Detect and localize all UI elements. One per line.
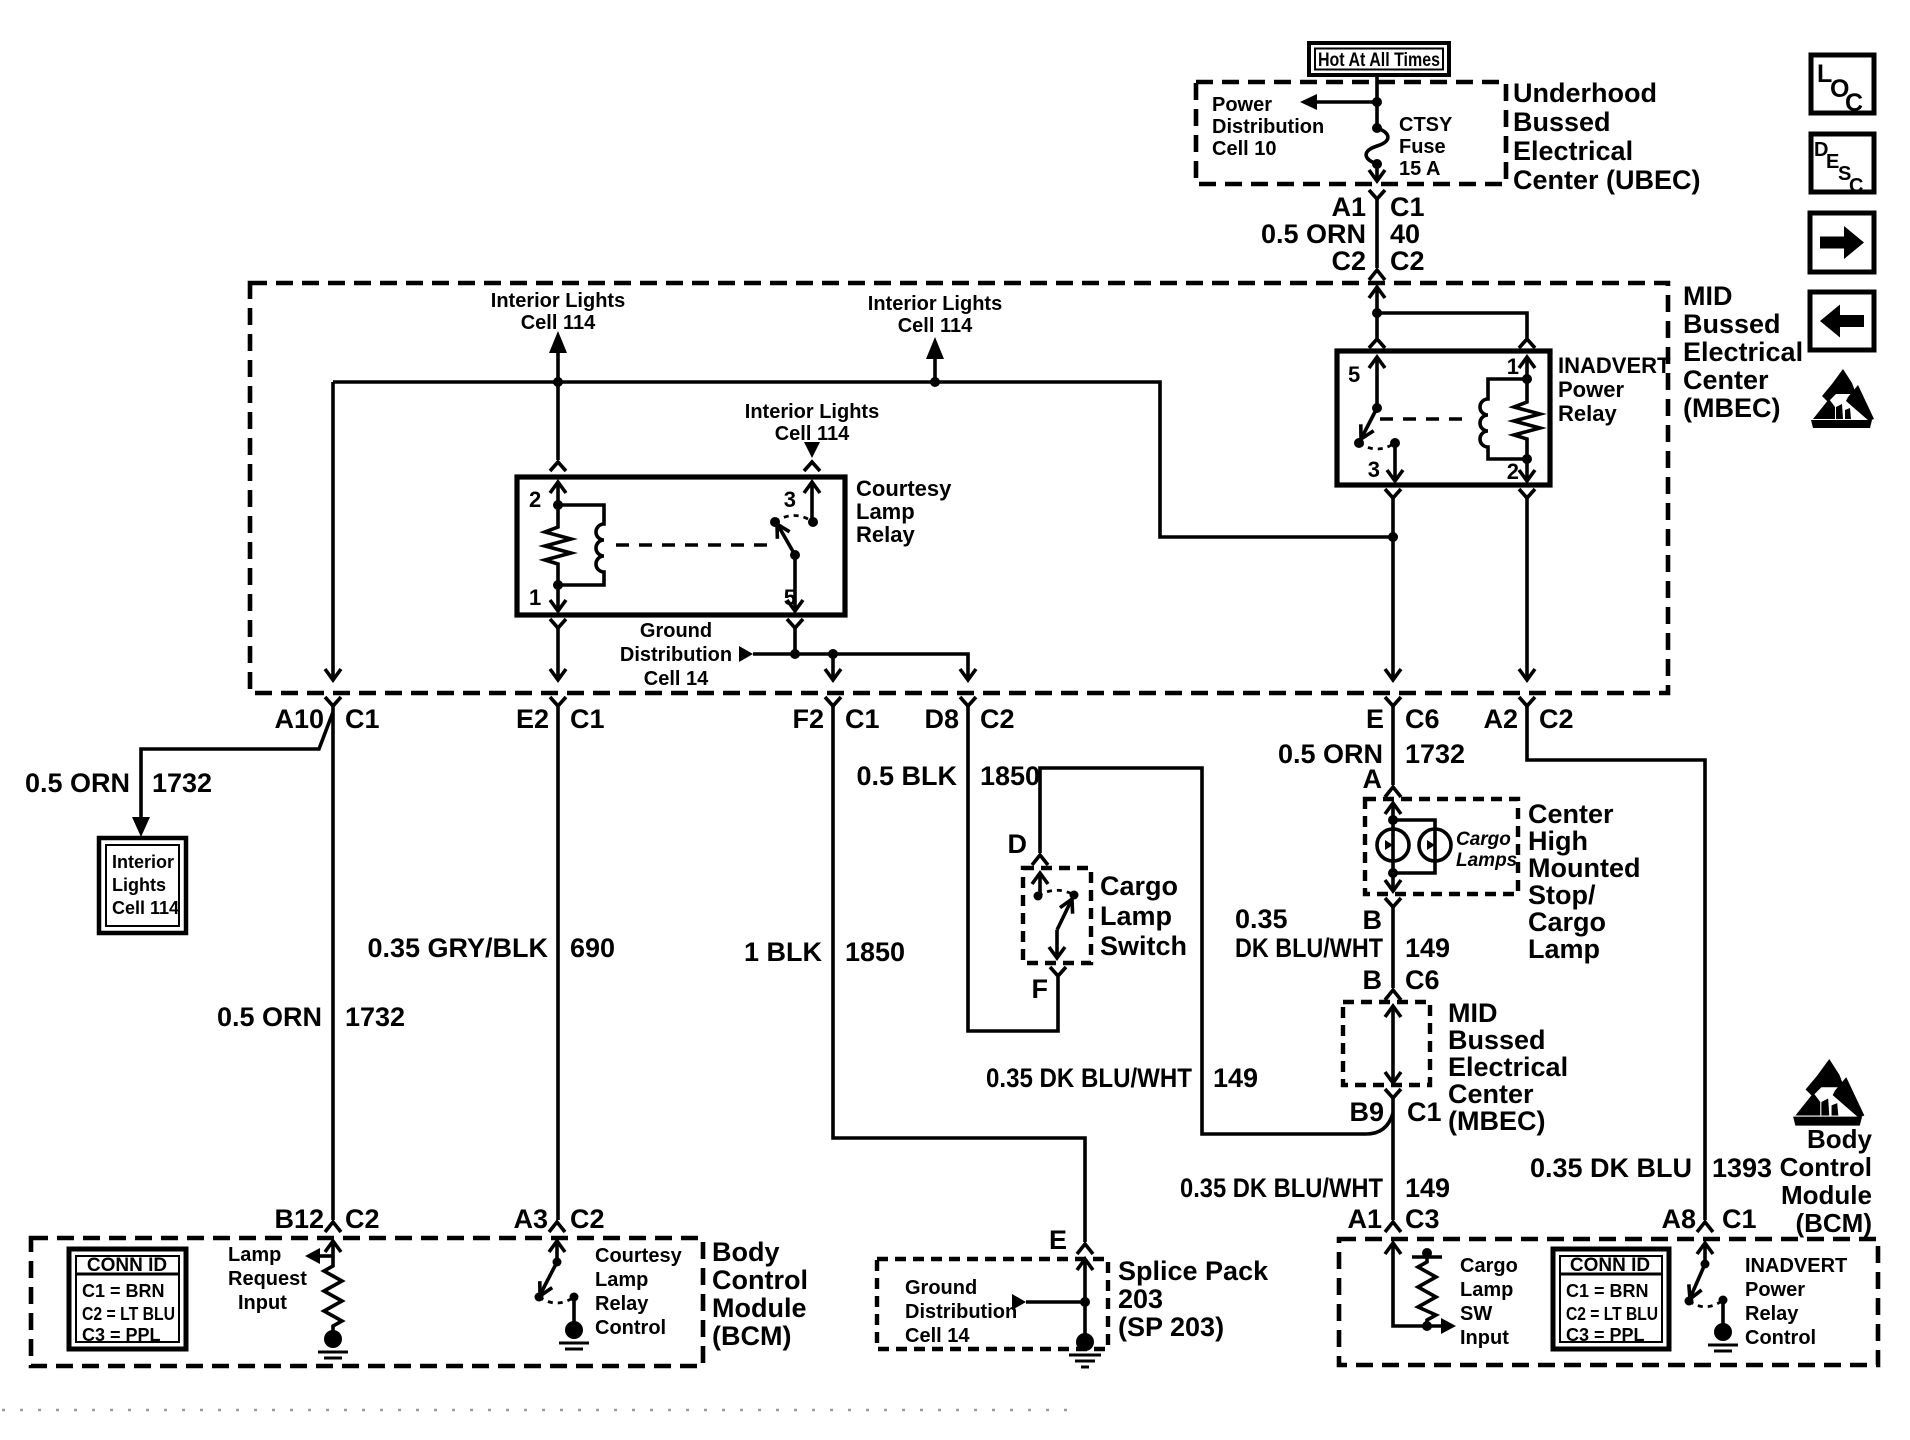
arrowhead: into interior lights cell box [132,817,150,837]
svg-text:C2: C2 [1331,246,1366,276]
node: lamp bottom junction [1388,868,1398,878]
svg-text:Lamp: Lamp [228,1244,281,1266]
svg-text:0.35 DK BLU: 0.35 DK BLU [1530,1153,1692,1183]
svg-text:0.5 ORN: 0.5 ORN [25,768,130,798]
arrowhead: pin 1 pointing down [550,600,566,611]
svg-text:MID: MID [1683,281,1733,311]
svg-text:Electrical: Electrical [1448,1052,1568,1082]
svg-text:0.35 GRY/BLK: 0.35 GRY/BLK [367,933,548,963]
wire: pin 5 down to ground distribution bus [793,628,797,654]
svg-text:A1: A1 [1347,1204,1382,1234]
wire: pin 1 down to MBEC edge E2 [556,628,560,680]
connector: male half above splice pack at E [1077,1244,1093,1254]
svg-text:C3: C3 [1405,1204,1440,1234]
svg-text:B: B [1363,965,1383,995]
connector: female half below cargo switch F [1050,967,1066,976]
svg-text:Courtesy: Courtesy [856,476,952,501]
ground: INADVERT driver ground [1708,1323,1738,1351]
svg-text:Relay: Relay [595,1293,649,1315]
svg-text:Control: Control [712,1265,808,1295]
box: Interior Lights Cell 114 [99,838,186,933]
box: MID Bussed Electrical Center (MBEC) main, dashed [250,283,1668,693]
node: coil bottom [553,580,563,590]
wire: E2 to A3 run [556,706,560,1220]
svg-text:Cell 114: Cell 114 [112,898,179,918]
svg-text:C2: C2 [345,1204,380,1234]
wire: E to cargo lamp A [1391,706,1395,785]
svg-text:203: 203 [1118,1284,1163,1314]
svg-text:Courtesy: Courtesy [595,1245,683,1267]
wire: pin 1 stem [556,585,560,611]
arrowhead: B12 entry pointing up [325,1241,341,1252]
svg-text:D8: D8 [924,704,959,734]
switch: cargo lamp switch contact [1032,873,1079,930]
connector: female half below small MBEC at B9 [1385,1089,1401,1098]
box: Body Control Module (BCM) right, dashed [1339,1239,1878,1365]
svg-text:MID: MID [1448,998,1498,1028]
wire: pin 3 stem [1393,443,1397,481]
svg-text:Ground: Ground [640,620,712,642]
box: Underhood Bussed Electrical Center (UBEC), dashed [1196,82,1506,184]
node: bus junction at second cell-114 arrow [930,377,940,387]
arrowhead: E2 exit pointing down [550,669,566,680]
svg-text:1 BLK: 1 BLK [744,937,823,967]
resistor: lamp request input pull [324,1262,342,1331]
arrowhead: ground distribution pointer (splice) [1012,1294,1026,1310]
svg-text:Module: Module [712,1293,807,1323]
svg-text:Body: Body [712,1237,780,1267]
connector: male half above cargo switch D [1032,855,1048,865]
node: fuse bottom [1372,159,1382,169]
wire: A8 stem [1703,1243,1707,1264]
wire: A10 branch to interior lights cell [141,712,333,820]
icon: LOC box [1811,55,1874,117]
wire: B9 down to A1 [1391,1098,1395,1220]
box: Splice Pack ground distribution, dashed [877,1259,1108,1349]
connector: male half above BCM at B12 [325,1222,341,1232]
label: Body Control Module (BCM) right [1780,1124,1873,1238]
svg-text:0.35 DK BLU/WHT: 0.35 DK BLU/WHT [1180,1173,1383,1203]
arrowhead: D8 exit pointing down [960,669,976,680]
wire: pin 3 down to MBEC edge E [1391,498,1395,680]
wire: A1/C1 to C2/C2 run [1375,199,1379,268]
svg-text:Cargo: Cargo [1528,907,1606,937]
icon: ESD symbol bottom right [1793,1059,1864,1126]
svg-text:0.35: 0.35 [1235,904,1288,934]
arrowhead: entry into MBEC from UBEC pointing up [1369,287,1385,298]
box: Cargo Lamp Switch, dashed [1023,868,1091,963]
svg-text:Lights: Lights [112,875,166,895]
label: Body Control Module (BCM) left [712,1237,808,1351]
svg-text:Cell 14: Cell 14 [644,668,709,690]
connector: female half below pin 1 [550,619,566,628]
wire: pin 3 stem with up arrow [810,482,814,522]
svg-text:Electrical: Electrical [1513,136,1633,166]
connector: female half below MBEC at A2 [1519,697,1535,706]
svg-text:1732: 1732 [152,768,212,798]
arrowhead: E exit pointing down [1385,669,1401,680]
wire: A10 to B12 run [331,706,335,1220]
node: resistor top [1422,1248,1432,1258]
svg-text:B12: B12 [274,1204,324,1234]
svg-text:Lamp: Lamp [856,499,915,524]
box: Hot At All Times [1309,43,1449,75]
ground: courtesy driver ground [559,1321,589,1349]
svg-text:Bussed: Bussed [1683,309,1781,339]
label: INADVERT Power Relay Control [1745,1255,1847,1349]
arrowhead: pin 3 pointing down [1387,470,1403,481]
connector: female half below MBEC at F2 [825,697,841,706]
svg-text:C1: C1 [1722,1204,1757,1234]
arrowhead: exit UBEC pointing down [1369,170,1385,181]
arrowhead: small MBEC exit pointing down [1385,1072,1401,1083]
svg-text:C2: C2 [1390,246,1425,276]
svg-text:A3: A3 [513,1204,548,1234]
svg-text:Cell 14: Cell 14 [905,1325,970,1347]
svg-text:C2: C2 [1539,704,1574,734]
link: INADVERT actuation dashed line [1380,417,1469,420]
svg-text:Underhood: Underhood [1513,78,1657,108]
svg-text:A: A [1363,764,1383,794]
svg-text:Input: Input [238,1292,287,1314]
svg-text:Hot At All Times: Hot At All Times [1318,50,1440,71]
relay box: INADVERT Power Relay [1337,351,1550,485]
svg-text:Mounted: Mounted [1528,853,1640,883]
resistor: INADVERT coil resistance [1514,379,1540,459]
wire: pin 1 stem to coil [1525,357,1529,379]
connector: female half below MBEC at E2 [550,697,566,706]
node: junction F2 drop on ground bus [828,649,838,659]
link: relay actuation dashed line [616,543,777,546]
node: resistor bottom junction [1422,1321,1432,1331]
svg-text:D: D [1008,829,1028,859]
switch: courtesy lamp relay control driver [535,1258,579,1304]
svg-text:(BCM): (BCM) [712,1321,791,1351]
label: small MBEC title [1448,998,1568,1136]
connector: male half above courtesy relay pin 3 [804,462,820,471]
svg-text:Relay: Relay [1558,401,1617,426]
inductor: courtesy relay coil [558,505,604,585]
arrowhead: pin 5 pointing down [787,600,803,611]
wire: F2 to splice pack [833,706,1085,1242]
wire: driver ground stub [572,1297,576,1322]
svg-text:(SP 203): (SP 203) [1118,1312,1224,1342]
svg-text:Bussed: Bussed [1448,1025,1546,1055]
svg-text:F2: F2 [792,704,824,734]
fuse: CTSY Fuse 15 A [1366,128,1388,164]
connector: female half below MBEC at A10 [325,697,341,706]
wire: hot feed into UBEC [1375,75,1379,128]
arrowhead: F2 exit pointing down [825,669,841,680]
svg-text:Splice Pack: Splice Pack [1118,1256,1269,1286]
svg-text:Distribution: Distribution [620,644,732,666]
connector: female half below cargo lamp B [1385,898,1401,907]
svg-text:C6: C6 [1405,704,1440,734]
wire: pin 2 stem [1525,459,1529,481]
svg-text:A2: A2 [1483,704,1518,734]
svg-text:Power: Power [1212,94,1272,116]
table: CONN ID left [69,1249,186,1349]
svg-text:F: F [1032,974,1049,1004]
svg-text:Distribution: Distribution [1212,116,1324,138]
svg-text:C2 = LT BLU: C2 = LT BLU [82,1304,175,1324]
node: lamp top junction [1388,815,1398,825]
node: junction at power distribution tap [1372,97,1382,107]
svg-text:CONN ID: CONN ID [87,1255,167,1276]
svg-text:Control: Control [595,1317,666,1339]
table: CONN ID right [1553,1249,1669,1349]
node: INADVERT coil top [1522,374,1532,384]
svg-text:Center: Center [1448,1079,1534,1109]
svg-text:2: 2 [529,487,541,512]
label: INADVERT Power Relay [1558,353,1671,426]
wire: drop to F2 [831,654,835,680]
svg-text:Center: Center [1683,365,1769,395]
arrowhead: A1 entry pointing up [1385,1243,1401,1254]
svg-text:3: 3 [784,487,796,512]
arrowhead: ground distribution pointer [739,646,753,662]
resistor: courtesy relay coil resistance [545,505,571,585]
svg-text:Interior: Interior [112,852,174,872]
svg-text:SW: SW [1460,1303,1492,1325]
arrowhead: pin 5 pointing up inside relay [1369,357,1385,368]
svg-text:High: High [1528,826,1588,856]
node: bus junction at pin 2 drop [553,377,563,387]
arrowhead: F pointing down [1049,947,1065,958]
box: Body Control Module (BCM) left, dashed [31,1238,703,1366]
svg-text:Cell 114: Cell 114 [898,315,973,337]
svg-text:C: C [1849,175,1863,197]
node: splice junction [1080,1297,1090,1307]
svg-text:CTSY: CTSY [1399,114,1453,136]
svg-text:C2: C2 [570,1204,605,1234]
svg-text:Interior Lights: Interior Lights [491,290,625,312]
wire: A10 drop from bus [331,382,335,680]
svg-text:1850: 1850 [845,937,905,967]
wire: A2 over to A8 run [1527,706,1705,1220]
svg-text:Cargo: Cargo [1460,1255,1518,1277]
wire: power distribution branch with left arrow [1314,100,1377,104]
svg-text:15 A: 15 A [1399,158,1441,180]
wire: bus drop to courtesy relay pin 2 [556,382,560,460]
svg-text:1393: 1393 [1712,1153,1772,1183]
icon: DESC box [1811,134,1874,197]
label: UBEC title [1513,78,1701,195]
svg-text:Cell 114: Cell 114 [775,423,850,445]
svg-text:690: 690 [570,933,615,963]
label: Power Distribution Cell 10 [1212,94,1324,160]
wire: splice pack vertical to ground [1083,1259,1087,1336]
arrowhead: A10 exit pointing down [325,669,341,680]
connector: male half above INADVERT pin 1 [1519,339,1535,348]
svg-text:Lamps: Lamps [1456,850,1517,871]
wire: B down to small MBEC [1391,907,1395,988]
wire: up arrow to Interior Lights cell 114 (first) [556,352,560,382]
connector: male half above small MBEC [1385,990,1401,1000]
label: Ground Distribution Cell 14 (MBEC) [620,620,732,690]
svg-text:C1: C1 [1390,192,1425,222]
wire: B12 stem [331,1241,335,1262]
svg-text:C1: C1 [345,704,380,734]
svg-text:(BCM): (BCM) [1795,1208,1872,1238]
wire: cargo switch F stem [1055,930,1059,958]
svg-text:DK BLU/WHT: DK BLU/WHT [1235,933,1383,963]
svg-text:C: C [1845,89,1863,117]
icon: left arrow box [1810,292,1874,350]
svg-text:Electrical: Electrical [1683,337,1803,367]
svg-text:1850: 1850 [980,761,1040,791]
svg-text:40: 40 [1390,219,1420,249]
icon: right arrow box [1810,213,1874,272]
svg-text:INADVERT: INADVERT [1558,353,1671,378]
label: Cargo Lamp Switch [1100,871,1187,961]
svg-text:1: 1 [529,585,541,610]
wire: lamp request branch with left arrow [318,1254,333,1258]
connector: female half below MBEC at E [1385,697,1401,706]
arrowhead: A2 exit pointing down [1519,669,1535,680]
label: Lamp Request Input [228,1244,307,1314]
connector: male half above MBEC [1369,270,1385,280]
connector: female half below pin 3 [1385,489,1401,498]
svg-text:A8: A8 [1661,1204,1696,1234]
label: Cargo Lamp SW Input [1460,1255,1518,1349]
wire: pin 2 down to MBEC edge A2 [1525,498,1529,680]
wire: D8 to cargo lamp switch F [968,706,1058,1031]
switch: INADVERT power relay control driver [1685,1260,1728,1307]
node: INADVERT coil bottom [1522,454,1532,464]
svg-text:C3 = PPL: C3 = PPL [1566,1325,1645,1345]
svg-text:A10: A10 [274,704,324,734]
node: junction bus to INADVERT pin 3 wire [1388,532,1398,542]
svg-text:Input: Input [1460,1327,1509,1349]
connector: female half below MBEC at D8 [960,697,976,706]
arrowhead: entry at A pointing up [1385,803,1401,814]
svg-text:C6: C6 [1405,965,1440,995]
label: Courtesy Lamp Relay [856,476,952,547]
svg-text:Center (UBEC): Center (UBEC) [1513,165,1701,195]
inductor: INADVERT coil [1480,379,1527,459]
svg-text:0.35 DK BLU/WHT: 0.35 DK BLU/WHT [986,1063,1192,1093]
connector: male half above courtesy relay pin 2 [550,462,566,471]
box: Center High Mounted Stop/Cargo Lamp, dashed [1365,799,1518,894]
svg-text:Lamp: Lamp [1460,1279,1513,1301]
svg-text:Lamp: Lamp [1100,901,1172,931]
label: MBEC title right [1683,281,1803,423]
svg-text:Distribution: Distribution [905,1301,1017,1323]
svg-text:Cargo: Cargo [1456,829,1511,850]
bottom faint dotted rule [2,1409,1080,1412]
svg-text:CONN ID: CONN ID [1570,1255,1650,1276]
connector: female half below pin 2 [1519,489,1535,498]
lamp: cargo lamp left [1377,829,1409,861]
svg-text:Ground: Ground [905,1277,977,1299]
label: Ground Distribution Cell 14 (splice) [905,1277,1017,1347]
svg-text:C1: C1 [570,704,605,734]
svg-text:C1 = BRN: C1 = BRN [82,1281,165,1301]
svg-text:Switch: Switch [1100,931,1187,961]
wire: up arrow to Interior Lights cell 114 (second) [933,358,937,382]
switch: courtesy relay contact [770,516,818,561]
ground: B12 resistor ground [318,1330,348,1358]
svg-text:5: 5 [1348,362,1360,387]
svg-text:Body: Body [1807,1124,1873,1154]
svg-text:Power: Power [1745,1279,1805,1301]
svg-text:3: 3 [1368,457,1380,482]
arrowhead: splice entry pointing up [1077,1259,1093,1270]
svg-text:C1: C1 [1407,1097,1442,1127]
wire: cargo lamp SW input path [1393,1243,1444,1326]
svg-text:C2: C2 [980,704,1015,734]
svg-text:Center: Center [1528,799,1614,829]
svg-text:C2 = LT BLU: C2 = LT BLU [1566,1304,1658,1324]
connector: male half above BCM at A8 [1697,1222,1713,1232]
svg-text:Module: Module [1781,1180,1872,1210]
svg-text:(MBEC): (MBEC) [1683,393,1780,423]
svg-text:C3 = PPL: C3 = PPL [82,1325,161,1345]
wire: branch to INADVERT pin 1 [1377,313,1527,338]
label: CTSY Fuse 15 A [1399,114,1453,180]
svg-text:0.5 ORN: 0.5 ORN [217,1002,322,1032]
connector: male half above INADVERT pin 5 [1369,339,1385,348]
arrowhead: pin 2 pointing down [1519,470,1535,481]
svg-text:1732: 1732 [345,1002,405,1032]
connector: female half below pin 5 [787,619,803,628]
svg-text:Cargo: Cargo [1100,871,1178,901]
arrowhead: A8 entry pointing up [1697,1243,1713,1254]
svg-text:2: 2 [1507,459,1519,484]
label: Center High Mounted Stop/Cargo Lamp [1528,799,1640,964]
wire: ground distribution link [1026,1300,1085,1304]
node: junction feed split [1372,308,1382,318]
node: fuse top [1372,123,1382,133]
svg-text:149: 149 [1405,933,1450,963]
svg-text:Lamp: Lamp [595,1269,648,1291]
wire: pin 2 stem to coil [556,482,560,505]
connector: male half above BCM at A3 [549,1222,565,1232]
svg-text:Cell 10: Cell 10 [1212,138,1276,160]
svg-text:E: E [1366,704,1384,734]
arrowhead: feed from cell 114 pointing down into pin 3 [804,442,820,458]
relay box: Courtesy Lamp Relay [517,477,845,615]
svg-text:A1: A1 [1331,192,1366,222]
connector: male half above BCM at A1 [1385,1222,1401,1232]
svg-text:Interior Lights: Interior Lights [868,293,1002,315]
wire: ground distribution bus [753,654,968,680]
svg-text:Power: Power [1558,377,1624,402]
svg-text:C1: C1 [845,704,880,734]
box: MID Bussed Electrical Center (MBEC) small, dashed [1343,1002,1430,1085]
svg-text:0.5 BLK: 0.5 BLK [856,761,957,791]
svg-text:149: 149 [1213,1063,1258,1093]
svg-text:B: B [1363,905,1383,935]
wire: feed down to INADVERT relay junction [1375,287,1379,338]
arrowhead: pin 2 pointing up inside relay [550,482,566,493]
svg-text:C1 = BRN: C1 = BRN [1566,1281,1649,1301]
wire: pin 5 stem [793,555,797,611]
bus: interior lights feed bus [333,382,1393,537]
resistor: cargo lamp SW input [1412,1257,1442,1326]
arrowhead: small MBEC entry pointing up [1385,1006,1401,1017]
wire: lamp parallel feed [1393,803,1435,873]
svg-text:Stop/: Stop/ [1528,880,1596,910]
arrowhead: A3 entry pointing up [549,1241,565,1252]
connector: male half above cargo lamp A [1385,787,1401,797]
label: Splice Pack 203 (SP 203) [1118,1256,1269,1342]
svg-text:INADVERT: INADVERT [1745,1255,1847,1277]
arrowhead: pin 1 pointing up inside relay [1519,357,1535,368]
arrowhead: pointing right to input [1441,1318,1456,1334]
ground: splice pack ground [1069,1333,1101,1367]
